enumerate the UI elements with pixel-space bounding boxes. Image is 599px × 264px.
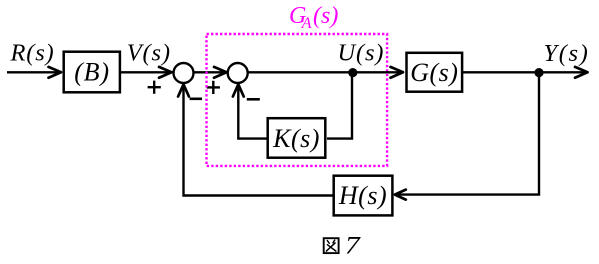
wire: S2 to block G with node U [248, 71, 402, 73]
wire: block B to summing junction S1 [120, 71, 170, 73]
svg-text:7: 7 [345, 231, 361, 259]
svg-text:U(s): U(s) [338, 40, 385, 67]
wire: block H left and up into S1 (feedback) [184, 86, 334, 196]
minus sign at S1 [190, 98, 202, 101]
svg-text:K(s): K(s) [272, 124, 320, 153]
plus sign at S1 [148, 81, 161, 94]
wire: input into block B [7, 71, 60, 73]
wire: S1 to summing junction S2 [194, 71, 226, 73]
caption glyph 図 (drawn) [324, 238, 339, 253]
node U (branch dot) [348, 68, 357, 77]
dashed box G_A [207, 34, 388, 166]
label G_A(s) [289, 3, 338, 32]
svg-text:V(s): V(s) [127, 40, 171, 67]
block H [334, 176, 393, 216]
minus sign at S2 [247, 98, 260, 101]
wire: node U down and left into block K [327, 72, 352, 138]
wire: block K left and up into S2 (feedback) [238, 86, 267, 139]
block G [407, 53, 463, 92]
block B [64, 52, 120, 93]
svg-text:H(s): H(s) [338, 181, 387, 210]
summing junction S1 [174, 63, 194, 83]
caption number 7 [345, 231, 361, 260]
svg-text:(s): (s) [313, 3, 338, 29]
plus sign at S2 [207, 81, 220, 94]
node Y (branch dot) [534, 68, 543, 77]
block K [268, 118, 326, 158]
svg-text:A: A [301, 15, 312, 32]
wire: block G to output with node Y [462, 71, 585, 73]
svg-text:(B): (B) [74, 57, 110, 86]
svg-text:G(s): G(s) [410, 58, 458, 87]
wire: node Y down and left into block H [397, 72, 540, 194]
svg-text:R(s): R(s) [10, 40, 55, 67]
svg-text:Y(s): Y(s) [544, 40, 590, 67]
summing junction S2 [228, 63, 248, 83]
